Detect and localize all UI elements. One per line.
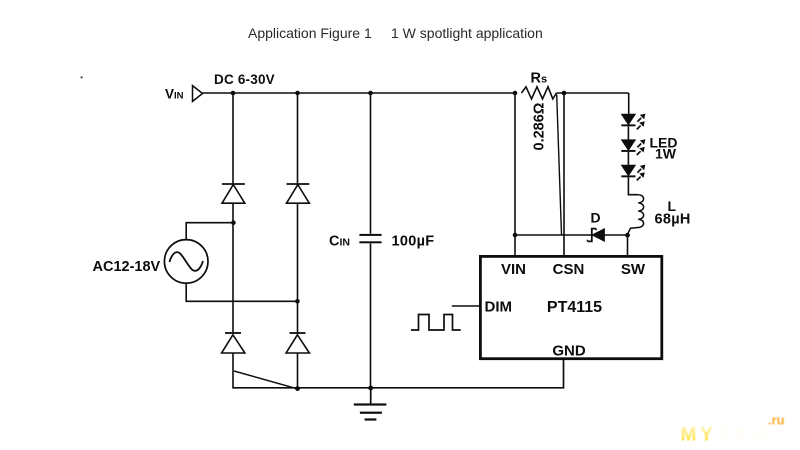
wire right bridge branch lower bbox=[297, 353, 299, 389]
svg-text:Rs: Rs bbox=[531, 71, 548, 87]
wire top rail bbox=[203, 92, 629, 94]
capacitor CIN plates bbox=[359, 234, 381, 243]
stray speck bbox=[81, 76, 83, 78]
junction top rail at RS right bbox=[562, 91, 567, 96]
svg-text:1 W spotlight application: 1 W spotlight application bbox=[391, 25, 543, 41]
inductor L coil bbox=[627, 195, 643, 235]
svg-text:SKU: SKU bbox=[718, 425, 770, 446]
svg-text:GND: GND bbox=[552, 343, 586, 360]
wire diagonal to bottom rail bbox=[234, 371, 297, 389]
wire diode anode to SW bbox=[604, 234, 627, 236]
diode D3 bridge bottom-left bbox=[222, 333, 245, 353]
svg-text:D: D bbox=[591, 210, 601, 226]
svg-text:1W: 1W bbox=[655, 146, 677, 162]
IC U1 PT4115 box bbox=[480, 256, 661, 358]
LED 3 bbox=[621, 165, 645, 181]
junction bottom rail at bridge bbox=[295, 386, 300, 391]
svg-text:DIM: DIM bbox=[485, 299, 513, 316]
wire left bridge branch middle bbox=[232, 203, 234, 333]
wire DIM pin bbox=[452, 305, 479, 307]
wire GND pin to bottom rail bbox=[233, 358, 564, 388]
diode D (Schottky) bbox=[587, 229, 604, 242]
svg-text:CIN: CIN bbox=[329, 234, 350, 250]
svg-text:VIN: VIN bbox=[501, 261, 526, 278]
resistor RS bbox=[522, 87, 557, 99]
junction SW node bbox=[625, 233, 630, 238]
junction AC bottom return bbox=[295, 299, 300, 304]
LED 2 bbox=[621, 139, 645, 155]
svg-text:SW: SW bbox=[621, 261, 646, 278]
wire CIN branch upper bbox=[370, 93, 372, 234]
junction top rail at RS left bbox=[513, 91, 518, 96]
wire left bridge branch lower bbox=[232, 353, 234, 389]
wire LED2-LED3 bbox=[627, 152, 629, 165]
svg-text:100µF: 100µF bbox=[392, 234, 435, 250]
junction ground bbox=[368, 386, 373, 391]
diode D4 bridge bottom-right bbox=[286, 333, 309, 353]
junction top rail at CIN bbox=[368, 91, 373, 96]
wire LED3 to inductor bbox=[628, 177, 638, 194]
wire AC top lead bbox=[186, 223, 233, 240]
junction top rail at left bridge branch bbox=[231, 91, 236, 96]
input buffer triangle bbox=[193, 86, 203, 102]
svg-text:PT4115: PT4115 bbox=[547, 299, 602, 316]
svg-text:AC12-18V: AC12-18V bbox=[93, 259, 161, 275]
wire VIN to diode D cathode bbox=[515, 234, 592, 236]
svg-text:DC 6-30V: DC 6-30V bbox=[214, 72, 275, 87]
wire LED branch from top rail bbox=[628, 93, 630, 114]
svg-text:MY: MY bbox=[681, 425, 717, 446]
wire SW pin bbox=[627, 235, 629, 256]
wire VIN pin bbox=[514, 235, 516, 256]
wire left bridge branch upper bbox=[232, 93, 234, 184]
wire right bridge branch upper bbox=[297, 93, 299, 184]
ground symbol bbox=[354, 388, 387, 421]
svg-text:Application Figure 1: Application Figure 1 bbox=[248, 25, 372, 41]
wire RS right sense down to CSN bbox=[563, 93, 565, 256]
LED 1 bbox=[621, 114, 645, 130]
svg-text:68µH: 68µH bbox=[655, 212, 691, 228]
junction VIN pin wire bbox=[513, 233, 518, 238]
svg-text:CSN: CSN bbox=[553, 261, 585, 278]
wire CIN branch lower bbox=[370, 244, 372, 389]
junction AC top bbox=[231, 220, 236, 225]
diode D1 bridge top-left bbox=[222, 184, 245, 203]
wire RS left sense down to VIN bbox=[514, 93, 516, 235]
svg-text:0.286Ω: 0.286Ω bbox=[532, 102, 548, 150]
junction top rail at right bridge branch bbox=[295, 91, 300, 96]
AC source circle bbox=[164, 240, 208, 284]
wire right bridge branch middle bbox=[297, 203, 299, 333]
svg-text:.ru: .ru bbox=[768, 413, 785, 428]
wire slanted sense line to CSN bbox=[557, 95, 562, 235]
PWM square wave bbox=[411, 315, 461, 331]
AC source sine wave bbox=[170, 252, 204, 271]
wire AC bottom lead bbox=[186, 283, 297, 301]
wire LED1-LED2 bbox=[627, 126, 629, 140]
diode D2 bridge top-right bbox=[287, 184, 310, 203]
